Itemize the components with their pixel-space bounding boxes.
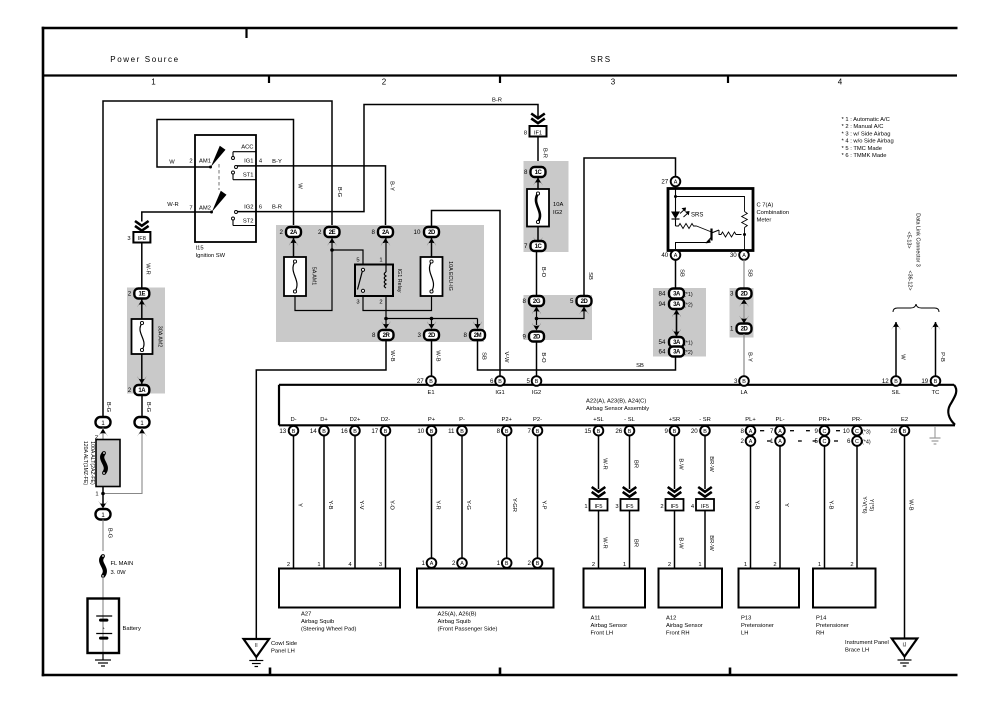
svg-text:B: B bbox=[353, 429, 357, 435]
wire B-W upper to IF5 2 bbox=[674, 435, 676, 489]
fuse IF5 (4) bbox=[696, 499, 714, 511]
svg-text:(*2): (*2) bbox=[684, 350, 693, 356]
svg-text:6: 6 bbox=[847, 438, 851, 445]
svg-text:A25(A), A26(B): A25(A), A26(B) bbox=[438, 612, 477, 618]
svg-text:Airbag Sensor: Airbag Sensor bbox=[591, 623, 628, 629]
svg-text:IG1 Relay: IG1 Relay bbox=[396, 269, 402, 293]
svg-text:2D: 2D bbox=[741, 327, 749, 333]
wire 1A to node 1 bbox=[141, 395, 143, 417]
svg-text:2: 2 bbox=[128, 291, 132, 298]
wire BR-W upper to IF5 4 bbox=[704, 435, 706, 489]
svg-text:Combination: Combination bbox=[757, 210, 790, 216]
svg-text:A: A bbox=[460, 561, 464, 567]
svg-text:1: 1 bbox=[623, 562, 626, 568]
alternate dash marks row2 bbox=[767, 440, 771, 442]
svg-text:10: 10 bbox=[843, 428, 850, 435]
connector 1A bbox=[134, 385, 149, 395]
svg-text:A: A bbox=[778, 429, 782, 435]
svg-text:(Front Passenger Side): (Front Passenger Side) bbox=[438, 627, 498, 633]
wire relay pin2 down bbox=[385, 296, 387, 319]
svg-text:P2-: P2- bbox=[533, 417, 542, 423]
svg-text:B: B bbox=[934, 379, 938, 385]
gray panel 3A bbox=[653, 288, 706, 357]
svg-text:C: C bbox=[855, 439, 859, 445]
svg-text:2D: 2D bbox=[428, 230, 436, 236]
wire 2R to cowl ground W-B bbox=[256, 341, 386, 640]
svg-text:B: B bbox=[703, 429, 707, 435]
svg-text:2: 2 bbox=[382, 78, 387, 87]
gray panel 10A IG2 bbox=[524, 161, 569, 252]
svg-text:A: A bbox=[430, 561, 434, 567]
svg-text:8: 8 bbox=[371, 229, 375, 236]
arrow into 1E bbox=[137, 300, 147, 308]
svg-text:6: 6 bbox=[490, 378, 494, 385]
svg-text:LH: LH bbox=[741, 631, 748, 637]
svg-text:26: 26 bbox=[615, 428, 622, 435]
svg-text:* 5 : TMC Made: * 5 : TMC Made bbox=[842, 146, 883, 152]
svg-text:1C: 1C bbox=[535, 170, 543, 176]
wire 2D9 to IG2 circle bbox=[536, 342, 538, 377]
svg-text:19: 19 bbox=[921, 378, 928, 385]
wire D2+ Y-V bbox=[354, 435, 356, 568]
svg-text:8: 8 bbox=[740, 428, 744, 435]
svg-text:B: B bbox=[597, 429, 601, 435]
ignition switch I15 box bbox=[195, 135, 256, 242]
svg-text:A11: A11 bbox=[591, 616, 601, 622]
connector 2D ig2 bbox=[529, 332, 544, 342]
wire ALT box to junction bbox=[102, 487, 104, 494]
arrow into IF1 bbox=[531, 114, 545, 119]
meter internal resistor vertical bbox=[742, 212, 748, 228]
svg-text:3A: 3A bbox=[673, 350, 681, 356]
connector 2D e1 bbox=[424, 330, 439, 340]
junction dot pin2 bbox=[384, 317, 388, 321]
svg-text:2: 2 bbox=[287, 562, 290, 568]
wire BR lower bbox=[629, 511, 631, 569]
wire BR-W lower bbox=[704, 511, 706, 569]
svg-text:* 1 : Automatic A/C: * 1 : Automatic A/C bbox=[842, 117, 890, 123]
fuse 30A AM2 gray box bbox=[127, 288, 165, 394]
svg-text:B-Y: B-Y bbox=[272, 159, 282, 165]
svg-text:+SR: +SR bbox=[669, 417, 680, 423]
svg-text:BR-W: BR-W bbox=[708, 535, 714, 551]
transistor bbox=[710, 229, 712, 241]
svg-text:P-: P- bbox=[459, 417, 465, 423]
svg-text:BR: BR bbox=[633, 460, 639, 468]
svg-text:2: 2 bbox=[189, 158, 192, 164]
wire TC P-B bbox=[935, 322, 937, 377]
svg-text:Battery: Battery bbox=[123, 626, 141, 632]
svg-text:2: 2 bbox=[279, 229, 283, 236]
svg-text:- SR: - SR bbox=[699, 417, 711, 423]
svg-text:6: 6 bbox=[259, 204, 262, 210]
svg-text:Y-V(*6): Y-V(*6) bbox=[861, 496, 867, 513]
svg-text:B-Y: B-Y bbox=[389, 181, 395, 191]
svg-text:P2+: P2+ bbox=[501, 417, 512, 423]
wire relay pin3 to ECU-IG bottom bbox=[363, 296, 432, 311]
wire into fusible link ALT bbox=[102, 428, 104, 441]
svg-text:A: A bbox=[674, 253, 678, 259]
wire right branch down to junction bbox=[103, 428, 142, 494]
svg-text:3: 3 bbox=[730, 291, 734, 298]
combination meter box bbox=[668, 189, 753, 251]
junction dot 2E bbox=[330, 248, 334, 252]
svg-text:B: B bbox=[536, 561, 540, 567]
frame bottom border bbox=[42, 674, 958, 677]
svg-text:D-: D- bbox=[290, 417, 296, 423]
P14 pretensioner RH box bbox=[813, 569, 876, 608]
svg-text:1E: 1E bbox=[139, 292, 146, 298]
wire 3A mid bbox=[676, 309, 678, 337]
fuse 5A AM1 bbox=[284, 257, 306, 296]
svg-text:B: B bbox=[460, 429, 464, 435]
connector 1C top bbox=[531, 167, 546, 177]
svg-text:Y-B: Y-B bbox=[327, 500, 333, 509]
svg-text:B-G: B-G bbox=[107, 528, 113, 539]
fuse IF8 bbox=[133, 232, 150, 243]
header divider line bbox=[43, 74, 957, 76]
connector 2A input bbox=[286, 227, 301, 237]
svg-text:2D: 2D bbox=[581, 299, 589, 305]
svg-text:ST2: ST2 bbox=[243, 219, 254, 225]
svg-text:Y-B: Y-B bbox=[754, 500, 760, 509]
svg-text:IG2: IG2 bbox=[244, 204, 253, 210]
svg-text:Y-O: Y-O bbox=[389, 500, 395, 510]
svg-text:7: 7 bbox=[770, 428, 774, 435]
connector 2M bbox=[470, 330, 485, 340]
svg-text:2D: 2D bbox=[428, 333, 436, 339]
svg-text:1: 1 bbox=[730, 326, 734, 333]
svg-text:17: 17 bbox=[371, 428, 378, 435]
wire PL+ Y-B bbox=[750, 446, 752, 569]
svg-text:Airbag Sensor: Airbag Sensor bbox=[666, 623, 703, 629]
relay IG1 box bbox=[355, 265, 393, 297]
svg-text:Y-GR: Y-GR bbox=[511, 498, 517, 512]
svg-text:AM1: AM1 bbox=[199, 158, 211, 164]
wire node1 to FL MAIN bbox=[102, 520, 104, 552]
svg-text:2: 2 bbox=[668, 562, 671, 568]
svg-text:B: B bbox=[535, 379, 539, 385]
wire BR upper to IF5 3 bbox=[629, 435, 631, 489]
svg-text:3A: 3A bbox=[673, 302, 681, 308]
svg-text:AM2: AM2 bbox=[199, 205, 211, 211]
DLC brace bbox=[893, 304, 939, 312]
wire P2- Y-P bbox=[537, 435, 539, 558]
arrow into 2A bbox=[289, 238, 299, 246]
svg-text:10A: 10A bbox=[553, 202, 563, 208]
svg-text:(*1): (*1) bbox=[684, 292, 693, 298]
svg-text:P-B: P-B bbox=[939, 352, 945, 362]
svg-text:(*3): (*3) bbox=[862, 429, 871, 435]
svg-text:1: 1 bbox=[770, 438, 774, 445]
fuse IF5 (1) bbox=[590, 499, 608, 511]
svg-text:Cowl Side: Cowl Side bbox=[271, 641, 297, 647]
svg-text:2: 2 bbox=[527, 560, 531, 567]
wire 2E down to junction bbox=[331, 238, 333, 250]
fusible link 120A ALT gray box bbox=[96, 440, 120, 487]
wire B-Y IG1 to 2A bbox=[237, 166, 386, 227]
svg-text:C: C bbox=[823, 439, 827, 445]
svg-text:A22(A), A23(B), A24(C): A22(A), A23(B), A24(C) bbox=[586, 399, 646, 405]
fuse 10A IG2 bbox=[527, 189, 549, 227]
fuse IF5 (3) bbox=[621, 499, 639, 511]
gray panel 2D LA bbox=[730, 288, 754, 338]
svg-text:A: A bbox=[778, 439, 782, 445]
svg-text:10A ECU-IG: 10A ECU-IG bbox=[447, 261, 453, 291]
svg-text:II: II bbox=[255, 643, 258, 649]
wire pin30 to 2D3 SB gray bbox=[743, 260, 745, 289]
meter pin 30 bbox=[739, 250, 749, 260]
connector 3A 54 bbox=[669, 337, 684, 347]
svg-text:10: 10 bbox=[414, 229, 421, 236]
svg-text:4: 4 bbox=[838, 78, 843, 87]
svg-text:11: 11 bbox=[448, 428, 455, 435]
SRS warning LED bbox=[671, 212, 680, 220]
svg-text:W-R: W-R bbox=[602, 537, 608, 548]
svg-text:84: 84 bbox=[659, 291, 666, 298]
ignition switch AM2 lever bbox=[212, 191, 227, 212]
svg-text:D2-: D2- bbox=[381, 417, 390, 423]
svg-text:A12: A12 bbox=[666, 616, 676, 622]
junction node battery feed bbox=[101, 492, 105, 496]
svg-text:W: W bbox=[297, 183, 303, 189]
arrow into 2D bbox=[427, 238, 437, 246]
arrows 2D stack bbox=[743, 299, 745, 323]
connector 2A ig1 bbox=[378, 227, 393, 237]
svg-text:RH: RH bbox=[816, 631, 824, 637]
wire PR- Y bbox=[856, 446, 858, 569]
svg-text:100A ALT(2AZ-FE): 100A ALT(2AZ-FE) bbox=[89, 441, 95, 485]
wire D- Y bbox=[293, 435, 295, 568]
svg-text:Airbag Squib: Airbag Squib bbox=[438, 619, 471, 625]
squib pin 2A bbox=[457, 558, 467, 568]
svg-text:2E: 2E bbox=[329, 230, 336, 236]
svg-text:94: 94 bbox=[659, 301, 666, 308]
svg-text:A: A bbox=[749, 429, 753, 435]
svg-text:W-B: W-B bbox=[389, 350, 395, 361]
ignition switch AM2 contact bbox=[210, 211, 213, 214]
svg-text:(*4): (*4) bbox=[862, 440, 871, 446]
svg-text:B-G: B-G bbox=[145, 402, 151, 413]
svg-text:B: B bbox=[384, 429, 388, 435]
wire 2D to fuse 10A ECU-IG bbox=[431, 238, 433, 257]
wire 2M to 3A stack SB bbox=[478, 341, 676, 371]
svg-text:9: 9 bbox=[522, 334, 526, 341]
svg-text:Airbag Sensor Assembly: Airbag Sensor Assembly bbox=[586, 406, 649, 412]
A25 A26 airbag squib box bbox=[417, 569, 554, 608]
svg-text:Pretensioner: Pretensioner bbox=[816, 623, 849, 629]
svg-text:1A: 1A bbox=[138, 388, 146, 394]
relay switch contacts bbox=[361, 268, 364, 271]
meter pin 40 bbox=[671, 250, 681, 260]
svg-text:28: 28 bbox=[890, 428, 897, 435]
assembly torn edge bbox=[948, 385, 956, 425]
bottom tick 1|2 bbox=[269, 668, 272, 675]
svg-text:7: 7 bbox=[524, 243, 528, 250]
connector 2D 1 bbox=[737, 324, 752, 334]
bus pin TC bbox=[931, 376, 941, 386]
svg-text:1: 1 bbox=[818, 562, 821, 568]
svg-text:SB: SB bbox=[636, 363, 644, 369]
svg-text:2D: 2D bbox=[741, 292, 749, 298]
svg-text:B-O: B-O bbox=[540, 352, 546, 363]
svg-text:B-R: B-R bbox=[492, 98, 502, 104]
svg-text:2: 2 bbox=[128, 387, 132, 394]
squib pin 2B bbox=[533, 558, 543, 568]
svg-text:* 3 : w/ Side Airbag: * 3 : w/ Side Airbag bbox=[842, 131, 891, 137]
fuse block gray panel bbox=[276, 225, 484, 342]
svg-text:* 2 : Manual A/C: * 2 : Manual A/C bbox=[842, 124, 884, 130]
svg-text:P+: P+ bbox=[428, 417, 436, 423]
svg-text:3: 3 bbox=[127, 236, 130, 242]
svg-text:B-G: B-G bbox=[336, 187, 342, 198]
svg-text:PL+: PL+ bbox=[745, 417, 756, 423]
assembly left edge bbox=[278, 385, 280, 426]
svg-text:2G: 2G bbox=[533, 299, 541, 305]
frame top border bbox=[42, 27, 958, 30]
svg-text:2: 2 bbox=[740, 438, 744, 445]
svg-text:SB: SB bbox=[679, 269, 685, 277]
bus pin IG1 bbox=[495, 376, 505, 386]
svg-text:27: 27 bbox=[417, 378, 424, 385]
svg-text:Y-V: Y-V bbox=[358, 500, 364, 509]
connector 2R bbox=[379, 330, 394, 340]
wire 2D to E1 bbox=[431, 341, 433, 377]
svg-text:PL-: PL- bbox=[775, 417, 784, 423]
svg-text:IG2: IG2 bbox=[553, 210, 562, 216]
connector 3A 84 bbox=[669, 289, 684, 299]
svg-text:27: 27 bbox=[661, 179, 668, 186]
svg-text:3: 3 bbox=[417, 332, 421, 339]
wire 2D10 to IG1 circle routing bbox=[432, 211, 501, 377]
svg-text:54: 54 bbox=[659, 339, 666, 346]
svg-text:3. 0W: 3. 0W bbox=[111, 570, 127, 576]
svg-text:9: 9 bbox=[814, 428, 818, 435]
assembly bottom connector line bbox=[279, 424, 955, 426]
svg-text:Meter: Meter bbox=[757, 218, 772, 224]
squib pin 1B bbox=[502, 558, 512, 568]
svg-text:2: 2 bbox=[592, 562, 595, 568]
svg-text:1: 1 bbox=[317, 562, 320, 568]
svg-text:SRS: SRS bbox=[691, 213, 703, 219]
svg-text:B: B bbox=[903, 429, 907, 435]
svg-text:8: 8 bbox=[524, 130, 527, 136]
svg-text:1: 1 bbox=[421, 560, 425, 567]
wire junction to relay pin 5 bbox=[332, 250, 363, 265]
svg-text:8: 8 bbox=[522, 298, 526, 305]
svg-text:3A: 3A bbox=[673, 292, 681, 298]
svg-text:2: 2 bbox=[379, 300, 382, 306]
svg-text:B: B bbox=[430, 429, 434, 435]
node 1 connector left bbox=[96, 417, 111, 428]
wire 2D5 up to meter pin27 bbox=[584, 158, 676, 296]
connector 2D srs5 bbox=[577, 296, 592, 306]
bottom tick 3|4 bbox=[729, 668, 732, 675]
arrows at 2G bbox=[532, 307, 542, 315]
svg-text:8: 8 bbox=[497, 428, 501, 435]
column tick 2|3 bbox=[499, 76, 501, 84]
svg-text:2R: 2R bbox=[383, 333, 391, 339]
svg-text:W: W bbox=[900, 354, 906, 360]
svg-text:64: 64 bbox=[659, 349, 666, 356]
wire W-R lower bbox=[598, 511, 600, 569]
svg-text:B: B bbox=[505, 561, 509, 567]
node 1 connector right bbox=[135, 417, 150, 428]
svg-text:* 6 : TMMK Made: * 6 : TMMK Made bbox=[842, 153, 887, 159]
junction dot 2G bbox=[536, 307, 538, 319]
svg-text:B-W: B-W bbox=[678, 458, 684, 470]
svg-text:B: B bbox=[536, 429, 540, 435]
svg-text:2: 2 bbox=[318, 229, 322, 236]
alternate pins second row bbox=[746, 436, 756, 446]
bus pin SIL bbox=[891, 376, 901, 386]
svg-text:Instrument Panel: Instrument Panel bbox=[845, 640, 889, 646]
svg-text:W-R: W-R bbox=[167, 202, 178, 208]
wire P+ Y-R bbox=[431, 435, 433, 558]
svg-text:7: 7 bbox=[527, 428, 531, 435]
svg-text:(*2): (*2) bbox=[684, 303, 693, 309]
ignition switch AM1 lever bbox=[211, 146, 226, 167]
svg-text:W: W bbox=[169, 160, 175, 166]
svg-text:W-B: W-B bbox=[908, 499, 914, 510]
ignition switch AM1 contact bbox=[209, 166, 212, 169]
svg-text:1C: 1C bbox=[535, 244, 543, 250]
svg-text:C: C bbox=[823, 429, 827, 435]
svg-text:A27: A27 bbox=[301, 612, 311, 618]
svg-text:ACC: ACC bbox=[241, 145, 253, 151]
svg-text:D+: D+ bbox=[320, 417, 328, 423]
wire PR+ Y-B bbox=[824, 446, 826, 569]
svg-text:B: B bbox=[429, 379, 433, 385]
connector 1C bottom bbox=[531, 241, 546, 251]
wire B-R IG2 to IF1 bbox=[237, 105, 538, 212]
svg-text:2A: 2A bbox=[382, 230, 390, 236]
bus pin E1 bbox=[426, 376, 436, 386]
svg-text:IG1: IG1 bbox=[244, 158, 253, 164]
svg-text:SB: SB bbox=[747, 269, 753, 277]
svg-text:A: A bbox=[749, 439, 753, 445]
svg-text:5: 5 bbox=[570, 298, 574, 305]
svg-text:13: 13 bbox=[279, 428, 286, 435]
A12 airbag sensor front RH box bbox=[659, 569, 723, 608]
connector 2E input bbox=[325, 227, 340, 237]
svg-text:2: 2 bbox=[850, 562, 853, 568]
wire IF8 to 1E bbox=[141, 243, 143, 289]
LED to base resistor bbox=[675, 219, 677, 226]
fuse IF1 bbox=[530, 126, 547, 137]
meter internal wiring bbox=[675, 186, 677, 212]
wire PL- Y bbox=[779, 446, 781, 569]
svg-text:Y-R: Y-R bbox=[435, 500, 441, 509]
connector 2D input bbox=[424, 227, 439, 237]
svg-text:B-G: B-G bbox=[105, 402, 111, 413]
wire W from AM1 bbox=[157, 120, 294, 227]
A27 airbag squib box bbox=[279, 569, 400, 608]
svg-text:BR-W: BR-W bbox=[708, 456, 714, 472]
svg-text:7: 7 bbox=[189, 205, 192, 211]
svg-text:W-B: W-B bbox=[435, 350, 441, 361]
svg-text:1: 1 bbox=[744, 562, 747, 568]
svg-text:P13: P13 bbox=[741, 616, 751, 622]
wire FL MAIN to battery bbox=[102, 576, 104, 654]
wire D2- Y-O bbox=[385, 435, 387, 568]
svg-text:B: B bbox=[322, 429, 326, 435]
svg-text:<5-13>: <5-13> bbox=[906, 231, 912, 248]
battery ground bbox=[102, 654, 104, 660]
svg-text:A: A bbox=[674, 180, 678, 186]
instrument panel brace LH ground bbox=[892, 639, 918, 657]
svg-text:PR+: PR+ bbox=[819, 417, 831, 423]
